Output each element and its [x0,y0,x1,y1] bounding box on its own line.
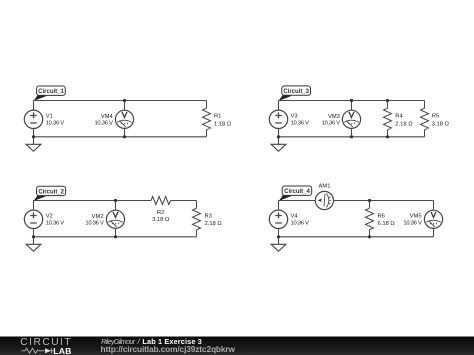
svg-text:R6: R6 [378,214,385,220]
svg-text:R5: R5 [432,114,439,120]
svg-text:10.36 V: 10.36 V [403,221,422,227]
svg-text:10.36 V: 10.36 V [94,121,113,127]
svg-text:Circuit_2: Circuit_2 [38,189,64,195]
svg-text:VM3: VM3 [328,114,340,120]
svg-text:10.36 V: 10.36 V [85,221,104,227]
svg-text:2.18 Ω: 2.18 Ω [395,121,413,127]
svg-text:3.18 Ω: 3.18 Ω [432,121,450,127]
svg-text:Circuit_1: Circuit_1 [38,89,64,95]
svg-text:2.18 Ω: 2.18 Ω [205,221,223,227]
svg-text:V3: V3 [291,113,298,119]
svg-text:Circuit_4: Circuit_4 [284,189,310,195]
svg-text:VM4: VM4 [101,114,114,120]
svg-text:R4: R4 [395,114,403,120]
svg-text:R3: R3 [205,214,212,220]
svg-text:10.36 V: 10.36 V [291,220,310,226]
svg-text:VM2: VM2 [92,214,104,220]
svg-text:AM1: AM1 [319,184,331,190]
svg-text:1.18 Ω: 1.18 Ω [214,121,232,127]
svg-text:LAB: LAB [53,346,71,355]
svg-text:VM5: VM5 [410,214,422,220]
svg-text:Circuit_3: Circuit_3 [283,89,309,95]
svg-text:V1: V1 [46,113,53,119]
svg-text:V2: V2 [46,213,53,219]
svg-text:R1: R1 [214,114,221,120]
svg-text:10.36 V: 10.36 V [291,120,310,126]
svg-text:10.36 V: 10.36 V [46,220,65,226]
svg-text:3.18 Ω: 3.18 Ω [152,217,170,223]
svg-text:http://circuitlab.com/cj39ztc2: http://circuitlab.com/cj39ztc2qbkrw [101,344,236,354]
svg-text:6.18 Ω: 6.18 Ω [378,221,396,227]
svg-text:V4: V4 [291,213,299,219]
svg-text:10.36 V: 10.36 V [322,121,341,127]
svg-text:R2: R2 [157,210,164,216]
svg-text:10.36 V: 10.36 V [46,120,65,126]
